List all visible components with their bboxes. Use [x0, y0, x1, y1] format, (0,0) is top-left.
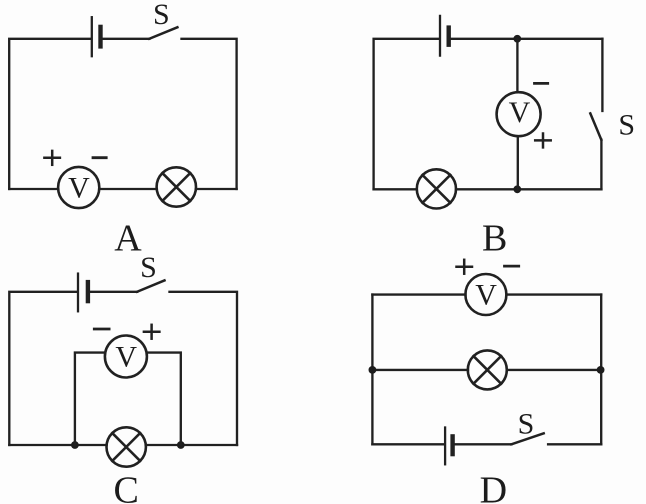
- svg-text:D: D: [480, 469, 507, 504]
- polarity plus (circuit A): [44, 151, 60, 165]
- svg-text:A: A: [114, 218, 142, 260]
- polarity minus (circuit D): [505, 265, 519, 268]
- wire D: middle rail lamp to right: [507, 369, 601, 371]
- svg-text:S: S: [153, 0, 170, 31]
- voltmeter V (circuit B): [497, 92, 541, 136]
- wire D: middle rail left to lamp: [372, 369, 468, 371]
- wire C: inner branch left vertical and top to voltmeter: [75, 353, 105, 445]
- polarity plus (circuit D): [457, 260, 473, 274]
- node dot (D left junction): [369, 366, 377, 374]
- lamp (circuit B): [417, 169, 456, 208]
- svg-text:S: S: [618, 109, 635, 142]
- wire A: lamp to voltmeter: [99, 188, 157, 190]
- wire D: left vertical: [371, 295, 373, 445]
- polarity plus (circuit B): [535, 134, 551, 148]
- switch S blade (circuit D): [511, 433, 543, 444]
- battery (cell, circuit A): [92, 17, 101, 56]
- wire B: right side lower, pivot to bottom corner: [600, 140, 602, 190]
- wire C: voltmeter to inner branch right vertical: [147, 353, 181, 445]
- voltmeter V (circuit C): [105, 336, 147, 378]
- svg-text:V: V: [475, 279, 497, 312]
- svg-text:V: V: [68, 172, 90, 205]
- wire B: middle branch upper, node to voltmeter: [516, 39, 518, 93]
- node dot (C left junction): [71, 441, 79, 449]
- polarity plus (circuit C): [144, 325, 160, 339]
- switch S blade (circuit B): [590, 113, 601, 139]
- wire D: switch contact to bottom-right corner: [548, 443, 601, 445]
- wire D: top rail voltmeter to right corner: [506, 293, 601, 295]
- node dot (C right junction): [177, 441, 185, 449]
- polarity minus (circuit C): [94, 328, 109, 331]
- wire A: bottom-right segment to lamp: [196, 188, 237, 190]
- wire A: voltmeter to bottom-left corner: [9, 188, 58, 190]
- svg-text:S: S: [140, 251, 157, 284]
- lamp (circuit A): [157, 167, 196, 206]
- polarity minus (circuit A): [93, 156, 106, 159]
- wire B: lamp to bottom-left corner: [374, 188, 417, 190]
- polarity minus (circuit B): [535, 82, 548, 85]
- wire B: battery to node and top-right corner: [451, 38, 603, 40]
- svg-text:V: V: [509, 96, 531, 129]
- wire D: bottom rail left to battery: [372, 443, 444, 445]
- battery (cell, circuit B): [440, 16, 449, 56]
- wire A: switch contact, top-right corner, right side: [182, 39, 237, 189]
- switch S blade (circuit A): [149, 27, 177, 39]
- voltmeter V (circuit D): [465, 274, 506, 315]
- wire D: right vertical: [600, 295, 602, 445]
- wire C: left side and top segment to battery: [9, 292, 76, 445]
- battery (cell, circuit C): [78, 274, 88, 312]
- svg-text:C: C: [114, 469, 139, 504]
- svg-text:S: S: [518, 408, 535, 441]
- wire C: switch contact, top-right corner, right side: [170, 292, 238, 445]
- wire C: bottom segment, right corner to lamp: [146, 444, 237, 446]
- lamp (circuit D): [468, 350, 507, 389]
- svg-text:B: B: [482, 217, 507, 259]
- wire A: left side and top-left segment: [9, 39, 91, 189]
- switch S blade (circuit C): [137, 280, 164, 291]
- battery (cell, circuit D): [445, 428, 453, 465]
- svg-text:V: V: [115, 341, 137, 374]
- wire B: bottom segment, corner to lamp: [456, 188, 601, 190]
- wire C: battery to switch pivot: [90, 291, 137, 293]
- wire B: right side upper, corner to switch contact: [601, 39, 603, 111]
- wire B: middle branch lower, voltmeter to node: [517, 136, 519, 189]
- voltmeter V (circuit A): [58, 167, 99, 208]
- wire B: left side and top segment to battery: [374, 39, 439, 190]
- node dot (B bottom junction): [513, 185, 521, 193]
- wire C: lamp to bottom-left corner: [9, 444, 106, 446]
- wire D: top rail left to voltmeter: [372, 293, 465, 295]
- wire A: battery to switch pivot: [103, 38, 150, 40]
- node dot (D right junction): [597, 366, 605, 374]
- node dot (B top junction): [513, 35, 521, 43]
- wire D: battery to switch pivot: [455, 443, 512, 445]
- lamp (circuit C): [107, 427, 146, 466]
